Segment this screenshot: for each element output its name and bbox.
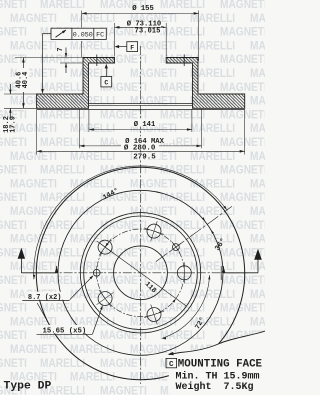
svg-text:MARELLI: MARELLI xyxy=(190,233,235,246)
svg-text:MAGNETI: MAGNETI xyxy=(220,81,265,94)
svg-text:MARELLI: MARELLI xyxy=(70,40,115,53)
svg-text:73.015: 73.015 xyxy=(135,27,161,35)
datum C note box xyxy=(166,358,177,367)
svg-text:MAGNETI: MAGNETI xyxy=(220,302,265,315)
dimension 7 arrows xyxy=(65,48,67,58)
dimension Ø141 extension lines xyxy=(88,109,90,132)
dimension 40.6/40.4 line and arrows xyxy=(22,58,24,109)
svg-text:MAGNETI: MAGNETI xyxy=(220,274,265,287)
dimension 7 extension lines xyxy=(15,57,83,59)
svg-text:MAGNETI: MAGNETI xyxy=(10,343,57,356)
svg-text:MAGNETI: MAGNETI xyxy=(100,329,147,342)
svg-text:MARELLI: MARELLI xyxy=(70,288,115,301)
bolt hole 4 (Ø15.65) xyxy=(90,284,119,313)
main vertical centerline (section + front view) xyxy=(140,46,142,384)
svg-text:MAGNETI: MAGNETI xyxy=(220,26,265,39)
svg-text:MAGNETI: MAGNETI xyxy=(10,150,57,163)
hat inboard face lines xyxy=(89,103,193,105)
cutting plane arrow left xyxy=(21,272,56,274)
hub circle Ø141 xyxy=(84,216,198,330)
svg-text:8.7 (x2): 8.7 (x2) xyxy=(28,294,62,302)
bolt circle tick left (section) xyxy=(96,55,98,67)
svg-text:MAGNETI: MAGNETI xyxy=(250,288,265,301)
datum C box and leader xyxy=(101,77,112,87)
svg-text:MARELLI: MARELLI xyxy=(40,109,85,122)
svg-text:MAGNETI: MAGNETI xyxy=(220,53,265,66)
dimension Ø164 MAX text xyxy=(117,136,173,143)
svg-text:F: F xyxy=(130,44,134,51)
svg-text:MAGNETI: MAGNETI xyxy=(250,122,265,135)
front view horizontal centerline / cutting plane xyxy=(34,272,247,274)
svg-text:MARELLI: MARELLI xyxy=(40,0,85,11)
runout check arrow right xyxy=(222,267,226,273)
svg-text:MARELLI: MARELLI xyxy=(40,274,85,287)
svg-text:C: C xyxy=(104,80,108,87)
bolt hole 3 (Ø15.65) xyxy=(90,232,119,261)
svg-text:MARELLI: MARELLI xyxy=(70,12,115,25)
svg-text:MAGNETI: MAGNETI xyxy=(220,109,265,122)
svg-text:MARELLI: MARELLI xyxy=(70,260,115,273)
svg-text:MAGNETI: MAGNETI xyxy=(0,274,27,287)
svg-text:MARELLI: MARELLI xyxy=(40,164,85,177)
svg-text:MAGNETI: MAGNETI xyxy=(250,150,265,163)
svg-text:MAGNETI: MAGNETI xyxy=(10,12,57,25)
dimension Ø73 line and arrows xyxy=(115,26,167,28)
svg-text:MAGNETI: MAGNETI xyxy=(100,109,147,122)
svg-text:MAGNETI: MAGNETI xyxy=(10,178,57,191)
svg-text:MAGNETI: MAGNETI xyxy=(0,329,27,342)
svg-text:MARELLI: MARELLI xyxy=(70,233,115,246)
svg-text:MARELLI: MARELLI xyxy=(190,12,235,25)
svg-text:Type DP: Type DP xyxy=(4,381,52,393)
svg-text:279.5: 279.5 xyxy=(133,153,156,161)
svg-text:MAGNETI: MAGNETI xyxy=(130,67,177,80)
svg-text:MAGNETI: MAGNETI xyxy=(250,233,265,246)
svg-text:MAGNETI: MAGNETI xyxy=(250,95,265,108)
svg-text:MARELLI: MARELLI xyxy=(40,81,85,94)
svg-text:MARELLI: MARELLI xyxy=(160,109,205,122)
svg-text:FC: FC xyxy=(96,32,104,40)
dimension 73.015 text xyxy=(133,28,163,34)
svg-text:MAGNETI: MAGNETI xyxy=(250,205,265,218)
svg-text:MARELLI: MARELLI xyxy=(190,40,235,53)
svg-text:MAGNETI: MAGNETI xyxy=(100,274,147,287)
disc bottom silhouette line xyxy=(37,108,245,110)
bolt circle diameter line (118) xyxy=(100,243,187,306)
hub outer circle Ø164 xyxy=(80,213,200,333)
svg-text:MARELLI: MARELLI xyxy=(160,191,205,204)
svg-text:MAGNETI: MAGNETI xyxy=(250,40,265,53)
svg-text:MAGNETI: MAGNETI xyxy=(250,67,265,80)
section right half: flange + hat wall + friction ring (hatched) xyxy=(166,58,245,109)
svg-text:MARELLI: MARELLI xyxy=(40,302,85,315)
svg-text:C: C xyxy=(169,361,174,369)
svg-text:MAGNETI: MAGNETI xyxy=(0,357,27,370)
note area white mask xyxy=(168,331,265,395)
svg-text:Weight 7.5Kg: Weight 7.5Kg xyxy=(176,381,254,393)
runout check arrow left xyxy=(55,267,59,273)
section left half: flange + hat wall + friction ring (hatched) xyxy=(37,58,115,109)
dimension Ø155 extension lines xyxy=(81,11,83,28)
72deg dimension arc with arrows xyxy=(162,275,210,338)
svg-text:MAGNETI: MAGNETI xyxy=(250,12,265,25)
feature control frame FC (runout 0.050) xyxy=(51,28,106,40)
center hole Ø73 xyxy=(114,246,168,300)
svg-text:MAGNETI: MAGNETI xyxy=(100,219,147,232)
svg-text:MAGNETI: MAGNETI xyxy=(100,357,147,370)
svg-text:MARELLI: MARELLI xyxy=(70,343,115,356)
svg-text:Min. TH 15.9mm: Min. TH 15.9mm xyxy=(176,371,260,383)
svg-text:MARELLI: MARELLI xyxy=(40,247,85,260)
small hole 2 (Ø8.7) xyxy=(90,266,103,279)
dimension Ø164 MAX line and arrows xyxy=(79,145,201,147)
svg-text:MARELLI: MARELLI xyxy=(70,150,115,163)
svg-text:MARELLI: MARELLI xyxy=(190,122,235,135)
datum F box and leader xyxy=(127,42,138,52)
svg-text:MARELLI: MARELLI xyxy=(190,150,235,163)
outer circle Ø280 xyxy=(36,167,244,379)
svg-text:MAGNETI: MAGNETI xyxy=(220,136,265,149)
friction band inner circle xyxy=(58,190,223,355)
svg-text:MAGNETI: MAGNETI xyxy=(250,316,265,329)
144deg dimension arc with arrows xyxy=(34,166,227,279)
svg-text:MAGNETI: MAGNETI xyxy=(0,136,27,149)
svg-text:MAGNETI: MAGNETI xyxy=(0,164,27,177)
dimension Ø164 MAX extension lines xyxy=(78,109,80,148)
svg-text:15.65 (x5): 15.65 (x5) xyxy=(43,327,87,335)
dimension Ø141 text xyxy=(126,120,159,127)
dimension Ø280 extension lines xyxy=(36,109,38,154)
svg-text:17.9: 17.9 xyxy=(10,116,18,133)
label 15.65 (x5) with leader xyxy=(37,333,93,335)
label 8.7 (x2) with leader xyxy=(22,300,69,302)
small hole 1 (Ø8.7) xyxy=(167,238,185,256)
dimension Ø73 extension lines xyxy=(114,23,116,57)
dimension Ø155 line and arrows xyxy=(82,12,199,14)
svg-text:MAGNETI: MAGNETI xyxy=(0,26,27,39)
dimension 18.2/17.9 arrows xyxy=(9,84,11,94)
svg-text:MARELLI: MARELLI xyxy=(70,205,115,218)
svg-text:MAGNETI: MAGNETI xyxy=(10,233,57,246)
bolt circle Ø118 (dashed) xyxy=(97,229,185,317)
svg-text:MAGNETI: MAGNETI xyxy=(130,178,177,191)
svg-text:MARELLI: MARELLI xyxy=(40,136,85,149)
FC leader line to friction surface xyxy=(43,33,52,35)
svg-text:Ø 155: Ø 155 xyxy=(132,4,154,13)
svg-text:MAGNETI: MAGNETI xyxy=(0,191,27,204)
36deg tick on friction inner circle xyxy=(220,266,222,280)
cutting plane arrow right xyxy=(224,272,259,274)
svg-text:MAGNETI: MAGNETI xyxy=(220,0,265,11)
svg-text:MAGNETI: MAGNETI xyxy=(220,219,265,232)
svg-text:MAGNETI: MAGNETI xyxy=(10,40,57,53)
svg-text:MAGNETI: MAGNETI xyxy=(0,0,27,11)
svg-text:MAGNETI: MAGNETI xyxy=(250,178,265,191)
svg-text:MAGNETI: MAGNETI xyxy=(100,385,147,395)
svg-text:Ø 141: Ø 141 xyxy=(134,120,156,129)
svg-text:MAGNETI: MAGNETI xyxy=(0,302,27,315)
bolt circle tick right (section) xyxy=(183,55,185,67)
svg-text:7: 7 xyxy=(57,47,65,51)
bolt hole 1 (Ø15.65) xyxy=(174,262,195,283)
svg-text:MOUNTING FACE: MOUNTING FACE xyxy=(178,358,263,370)
connector line between labels xyxy=(37,303,50,326)
svg-text:MAGNETI: MAGNETI xyxy=(220,191,265,204)
svg-text:0.050: 0.050 xyxy=(73,32,93,40)
svg-text:MARELLI: MARELLI xyxy=(70,371,115,384)
radial centerline 36deg through small hole xyxy=(156,206,232,261)
svg-text:MARELLI: MARELLI xyxy=(40,53,85,66)
svg-text:MAGNETI: MAGNETI xyxy=(0,219,27,232)
dimension 18.2/17.9 extension lines xyxy=(4,93,37,95)
svg-text:40.4: 40.4 xyxy=(22,72,30,89)
svg-text:MAGNETI: MAGNETI xyxy=(130,95,177,108)
svg-text:MAGNETI: MAGNETI xyxy=(130,233,177,246)
svg-text:MAGNETI: MAGNETI xyxy=(130,260,177,273)
svg-text:MAGNETI: MAGNETI xyxy=(250,260,265,273)
svg-text:MAGNETI: MAGNETI xyxy=(220,164,265,177)
dimension Ø280.0 text xyxy=(121,143,159,150)
svg-text:MARELLI: MARELLI xyxy=(160,0,205,11)
dimension 279.5 text xyxy=(132,153,160,160)
dimension Ø141 line and arrows xyxy=(89,129,192,131)
svg-text:MAGNETI: MAGNETI xyxy=(130,316,177,329)
note separator curve with arrow xyxy=(180,331,265,353)
svg-text:Ø 280.0: Ø 280.0 xyxy=(124,143,156,152)
bolt hole 2 (Ø15.65) xyxy=(141,218,167,244)
bolt hole 5 (Ø15.65) xyxy=(141,301,167,327)
dimension Ø280 line and arrows xyxy=(37,150,245,152)
